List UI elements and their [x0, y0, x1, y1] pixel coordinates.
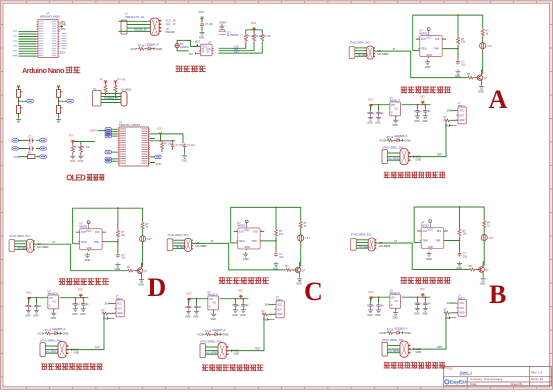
svg-text:REV: 1.0: REV: 1.0	[531, 371, 543, 375]
svg-text:CLK: CLK	[166, 23, 171, 26]
svg-text:R?: R?	[70, 134, 74, 138]
svg-text:C? 104: C? 104	[205, 23, 213, 26]
svg-text:VCC: VCC	[251, 21, 257, 25]
svg-text:VCC: VCC	[199, 10, 205, 14]
svg-text:DS18B20_5V: DS18B20_5V	[104, 97, 119, 100]
svg-text:GND: GND	[156, 162, 162, 166]
svg-text:Date:: Date:	[470, 382, 477, 386]
svg-text:ARDUINO_NANO: ARDUINO_NANO	[40, 16, 60, 19]
svg-text:EasyEDA: EasyEDA	[450, 379, 468, 384]
svg-text:R? 10k: R? 10k	[247, 36, 255, 38]
svg-text:VCC: VCC	[157, 126, 163, 130]
svg-text:R? 10k: R? 10k	[75, 147, 83, 149]
svg-text:GND?: GND?	[219, 21, 227, 24]
svg-text:C? 10u: C? 10u	[187, 145, 195, 147]
svg-text:CR2032: CR2032	[180, 46, 189, 49]
svg-text:Sheet: 1/1: Sheet: 1/1	[531, 377, 544, 381]
svg-text:VCC: VCC	[195, 40, 201, 44]
svg-text:VIN: VIN	[61, 27, 65, 31]
svg-text:B: B	[489, 280, 506, 309]
svg-text:DS1302: DS1302	[166, 31, 176, 34]
svg-text:D: D	[147, 273, 166, 302]
svg-text:Drawn By:: Drawn By:	[511, 382, 524, 386]
svg-text:IO: IO	[206, 52, 209, 54]
svg-text:GND: GND	[78, 160, 84, 163]
svg-text:R? 10k: R? 10k	[264, 36, 272, 38]
svg-text:GND: GND	[70, 160, 76, 163]
svg-text:TITLE:: TITLE:	[445, 367, 453, 371]
svg-text:D13: D13	[60, 51, 65, 55]
svg-text:R? 10k: R? 10k	[255, 36, 263, 38]
svg-text:R? 4.7k: R? 4.7k	[118, 80, 127, 82]
svg-text:3V3: 3V3	[14, 155, 19, 159]
svg-text:OLED: OLED	[66, 173, 86, 182]
svg-text:R? 10k: R? 10k	[83, 147, 91, 149]
svg-text:C: C	[304, 277, 323, 306]
svg-text:C? 104: C? 104	[176, 145, 184, 147]
svg-text:Arduino Nano: Arduino Nano	[22, 66, 65, 75]
svg-text:Company: Your Company: Company: Your Company	[470, 377, 502, 381]
svg-text:RST: RST	[234, 50, 239, 53]
svg-text:HDR-M-2.54_1x4: HDR-M-2.54_1x4	[125, 16, 145, 19]
svg-text:A: A	[489, 85, 508, 114]
svg-text:X0?: X0?	[189, 53, 194, 56]
svg-text:Sheet_1: Sheet_1	[459, 371, 472, 375]
svg-text:IO: IO	[173, 23, 176, 26]
svg-text:32.768KHZ: 32.768KHZ	[227, 34, 240, 37]
svg-text:GND?: GND?	[90, 129, 98, 133]
svg-text:0R: 0R	[28, 153, 31, 155]
svg-text:GND: GND	[199, 36, 205, 39]
svg-text:U? 18B20: U? 18B20	[121, 90, 132, 92]
svg-text:DS1302_5V: DS1302_5V	[134, 29, 147, 32]
svg-text:GND: GND	[181, 159, 187, 162]
